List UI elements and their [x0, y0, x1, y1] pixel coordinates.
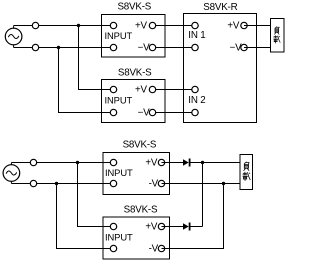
- wire: bottom rail L4 (AC2 to S8VK-S no.3 INPUT -): [11, 183, 113, 185]
- pin U5 -V: [158, 245, 164, 251]
- pin U2 INPUT-: [110, 109, 116, 115]
- power supply U4 S8VK-S (bottom circuit, upper): [103, 153, 170, 195]
- diode D1: [183, 159, 191, 167]
- node J5 (diode outputs join): [201, 161, 204, 164]
- wire: bottom rail L2 (AC1 to S8VK-S no.1 INPUT -): [14, 47, 114, 49]
- node J2 (branch on L2): [57, 46, 60, 49]
- wire: branch from J1 to S8VK-S no.2 INPUT +: [79, 26, 114, 90]
- svg-text:+V: +V: [145, 222, 158, 233]
- node J1 (branch on L1): [77, 24, 80, 27]
- wire: top rail L3 (AC2 to S8VK-S no.3 INPUT +): [11, 162, 113, 164]
- svg-text:S8VK-S: S8VK-S: [118, 67, 152, 78]
- svg-text:IN 2: IN 2: [188, 95, 205, 106]
- pin U3 IN2+: [192, 86, 198, 92]
- pin U4 +V: [158, 159, 164, 165]
- svg-text:-V: -V: [149, 179, 159, 190]
- pin U4 INPUT-: [110, 180, 116, 186]
- pin U2 +V: [149, 86, 155, 92]
- terminal T4 on L4: [30, 180, 36, 186]
- svg-text:+V: +V: [135, 21, 148, 32]
- svg-text:+V: +V: [135, 85, 148, 96]
- power supply U5 S8VK-S (bottom circuit, lower): [103, 217, 170, 259]
- svg-text:−V: −V: [138, 108, 151, 119]
- wire: branch from J4 to S8VK-S no.4 INPUT -: [57, 184, 114, 249]
- power supply U2 S8VK-S (top circuit, lower): [102, 80, 166, 123]
- node J4 (branch on L4): [55, 182, 58, 185]
- wire: S8VK-S no.2 +V to S8VK-R IN2+: [153, 89, 196, 91]
- svg-text:IN 1: IN 1: [188, 30, 205, 41]
- svg-text:INPUT: INPUT: [105, 167, 133, 178]
- pin U1 INPUT+: [110, 22, 116, 28]
- wire: U4 +V to diode D1: [162, 162, 184, 164]
- wire: U5 -V to J6 vertical: [162, 248, 225, 250]
- pin U5 +V: [158, 223, 164, 229]
- pin U2 INPUT+: [110, 86, 116, 92]
- pin U5 INPUT-: [110, 245, 116, 251]
- pin U1 +V: [149, 22, 155, 28]
- pin U4 INPUT+: [110, 159, 116, 165]
- svg-text:INPUT: INPUT: [105, 30, 133, 41]
- wire: vertical from J6 down to U5 -V: [223, 184, 225, 249]
- label RL2 load glyph 载: [243, 172, 251, 181]
- svg-text:S8VK-R: S8VK-R: [203, 2, 237, 13]
- label RL1 load glyph 负: [274, 27, 279, 35]
- AC source G1 (top circuit): [5, 26, 22, 48]
- redundancy module U3 S8VK-R: [184, 14, 257, 123]
- wire: branch from J3 to S8VK-S no.4 INPUT +: [78, 163, 114, 227]
- AC source G2 (bottom circuit): [3, 163, 20, 184]
- svg-text:−V: −V: [138, 43, 151, 54]
- terminal T1 on L1: [32, 22, 38, 28]
- svg-text:+V: +V: [227, 21, 240, 32]
- pin U4 -V: [158, 180, 164, 186]
- wire: U4 -V to load RL2: [162, 183, 241, 185]
- wire: S8VK-S no.1 +V to S8VK-R IN1+: [153, 25, 196, 27]
- wire: S8VK-S no.2 -V to S8VK-R IN2-: [153, 112, 196, 114]
- pin U1 INPUT-: [110, 44, 116, 50]
- pin U3 IN2-: [192, 109, 198, 115]
- svg-text:-V: -V: [149, 244, 159, 255]
- node J6 (-V join): [222, 182, 225, 185]
- wire: U5 +V to diode D2: [162, 226, 184, 228]
- wire: D1 cathode to load RL2: [191, 162, 241, 164]
- pin U3 -V: [241, 44, 247, 50]
- power supply U1 S8VK-S (top circuit, upper): [102, 15, 166, 58]
- wire: D2 cathode to J5 vertical: [191, 226, 203, 228]
- svg-text:S8VK-S: S8VK-S: [123, 140, 157, 151]
- pin U3 IN1+: [192, 22, 198, 28]
- wire: branch from J2 to S8VK-S no.2 INPUT -: [59, 48, 114, 113]
- svg-text:S8VK-S: S8VK-S: [124, 204, 158, 215]
- svg-text:−V: −V: [230, 43, 243, 54]
- label RL1 load glyph 载: [273, 35, 280, 43]
- wire: top rail L1 (AC1 to S8VK-S no.1 INPUT +): [14, 25, 114, 27]
- svg-text:INPUT: INPUT: [105, 232, 133, 243]
- terminal T2 on L2: [32, 44, 38, 50]
- label RL2 load glyph 负: [244, 162, 250, 171]
- svg-text:+V: +V: [145, 158, 158, 169]
- svg-text:S8VK-S: S8VK-S: [117, 2, 151, 13]
- terminal T3 on L3: [30, 159, 36, 165]
- diode D2: [183, 223, 191, 231]
- pin U1 -V: [149, 44, 155, 50]
- wire: U3 -V to load RL1: [244, 47, 271, 49]
- svg-text:INPUT: INPUT: [105, 94, 133, 105]
- load RL1 (top circuit): [271, 19, 285, 53]
- load RL2 (bottom circuit): [240, 155, 253, 190]
- pin U2 -V: [149, 109, 155, 115]
- pin U3 IN1-: [192, 44, 198, 50]
- wire: vertical from J5 down to D2 cathode: [202, 163, 204, 227]
- node J3 (branch on L3): [76, 161, 79, 164]
- wire: U3 +V to load RL1: [244, 25, 271, 27]
- wire: S8VK-S no.1 -V to S8VK-R IN1-: [153, 47, 196, 49]
- pin U5 INPUT+: [110, 223, 116, 229]
- pin U3 +V: [241, 22, 247, 28]
